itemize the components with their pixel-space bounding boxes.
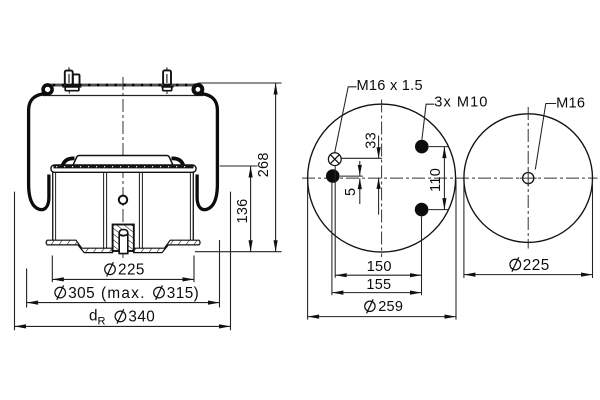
label M16 x 1.5 with leader: [335, 78, 423, 153]
bolt B1 (left stud on top plate): [65, 67, 73, 84]
svg-text:315): 315): [167, 285, 199, 302]
dimension 268 extension line top: [198, 82, 282, 84]
label d305 (max. d315): [55, 285, 199, 302]
svg-text:R: R: [98, 316, 106, 328]
dimension d225 (right view) extension lines: [463, 180, 465, 279]
bottom plate right (hatched profile): [134, 240, 201, 252]
dimension d259: [308, 315, 456, 319]
label d225 (left view): [105, 262, 145, 279]
svg-text:136: 136: [235, 199, 251, 224]
svg-text:M16: M16: [556, 95, 585, 111]
extension line from H3: [429, 209, 449, 211]
large circle C1 (d259 plate): [308, 104, 456, 252]
label d259: [365, 299, 403, 315]
bolt B2 (right stud on top plate): [163, 67, 171, 84]
extension line H1 down: [331, 183, 333, 295]
piston wall right: [190, 172, 193, 240]
cap corner curl left: [62, 158, 74, 166]
svg-text:3x M10: 3x M10: [434, 94, 488, 110]
dimension d225 extension lines: [51, 256, 53, 283]
svg-text:110: 110: [428, 168, 444, 192]
svg-text:155: 155: [366, 277, 391, 293]
svg-text:5: 5: [343, 188, 359, 196]
bolt hole H1 (left M10, filled): [326, 169, 340, 183]
label 3x M10 with leader: [422, 94, 489, 139]
svg-text:259: 259: [378, 299, 403, 315]
bolt hole H2 (upper right M10, filled): [415, 140, 429, 154]
label d225 (right view): [510, 257, 550, 274]
piston band (upper piston ring with dots): [51, 165, 196, 172]
svg-text:268: 268: [256, 152, 272, 177]
bellows outer contour left: [29, 93, 49, 209]
svg-text:33: 33: [363, 132, 379, 149]
svg-text:340: 340: [128, 309, 155, 326]
dimension d305 extension lines: [26, 269, 28, 308]
label dR d340: [89, 308, 155, 328]
vertical centerline C2: [527, 107, 529, 249]
svg-text:M16 x 1.5: M16 x 1.5: [357, 78, 423, 94]
extension line from vent to 33-dim: [342, 157, 382, 159]
dimension 155: [332, 291, 422, 295]
extension line H3 down: [421, 217, 423, 296]
piston wall left: [53, 172, 56, 240]
small hole on center tube: [119, 196, 127, 204]
nut/washer under plate below B2: [161, 86, 173, 95]
centerline (vertical axis of left view): [122, 77, 124, 258]
dimension 33: [377, 136, 381, 215]
svg-text:225: 225: [523, 257, 550, 274]
horizontal centerline through both circles: [302, 177, 598, 179]
cap corner curl right: [172, 158, 184, 166]
bottom plate left (hatched profile): [46, 240, 113, 252]
svg-text:(max.: (max.: [101, 285, 146, 302]
inner tube left wall: [104, 172, 107, 248]
label M16 with leader: [535, 95, 585, 169]
dimension 136 extension line: [220, 165, 258, 167]
dimension dR340 extension lines: [14, 192, 16, 331]
rolled edge right (bead roll): [194, 85, 203, 94]
center hole M16 on C2: [520, 170, 537, 187]
svg-text:305: 305: [68, 285, 95, 302]
dimension d305 line: [27, 301, 220, 305]
dimension d225 (right view): [464, 273, 593, 277]
vertical centerline C1: [381, 100, 383, 258]
piston cap (top closing plate): [73, 156, 173, 166]
dimension 150: [335, 273, 421, 277]
dimension dR340 line: [15, 324, 231, 328]
bolt hole H3 (lower right M10, filled): [415, 203, 429, 217]
dimension d259 extension lines: [307, 180, 309, 320]
nut/washer under plate below B1: [62, 86, 81, 94]
center bolt block (hatched): [113, 225, 134, 252]
rolled edge left (bead roll): [43, 85, 52, 94]
center bolt shank: [119, 230, 128, 254]
dimension 268: [274, 83, 278, 252]
dimension d225 line: [52, 277, 194, 281]
extension line from H1 to 5-dim: [340, 175, 363, 177]
top plate (bead plate with section dots): [51, 84, 197, 87]
extension line from H2: [429, 146, 449, 148]
circle C2 (d225 piston top): [464, 114, 593, 243]
dimension 136: [249, 166, 253, 252]
plate underside line: [43, 95, 204, 97]
air fitting beside bolt B1: [73, 74, 80, 84]
dimension 5: [358, 161, 362, 204]
vent fitting (M16x1.5, crossed circle): [328, 153, 341, 166]
svg-text:150: 150: [367, 259, 392, 275]
svg-text:225: 225: [118, 262, 145, 279]
extension line vent down: [334, 166, 336, 278]
dimension bottom extension line: [195, 251, 282, 253]
inner tube right wall: [139, 172, 142, 248]
bellows outer contour right: [197, 93, 217, 209]
dimension 110: [442, 147, 446, 210]
